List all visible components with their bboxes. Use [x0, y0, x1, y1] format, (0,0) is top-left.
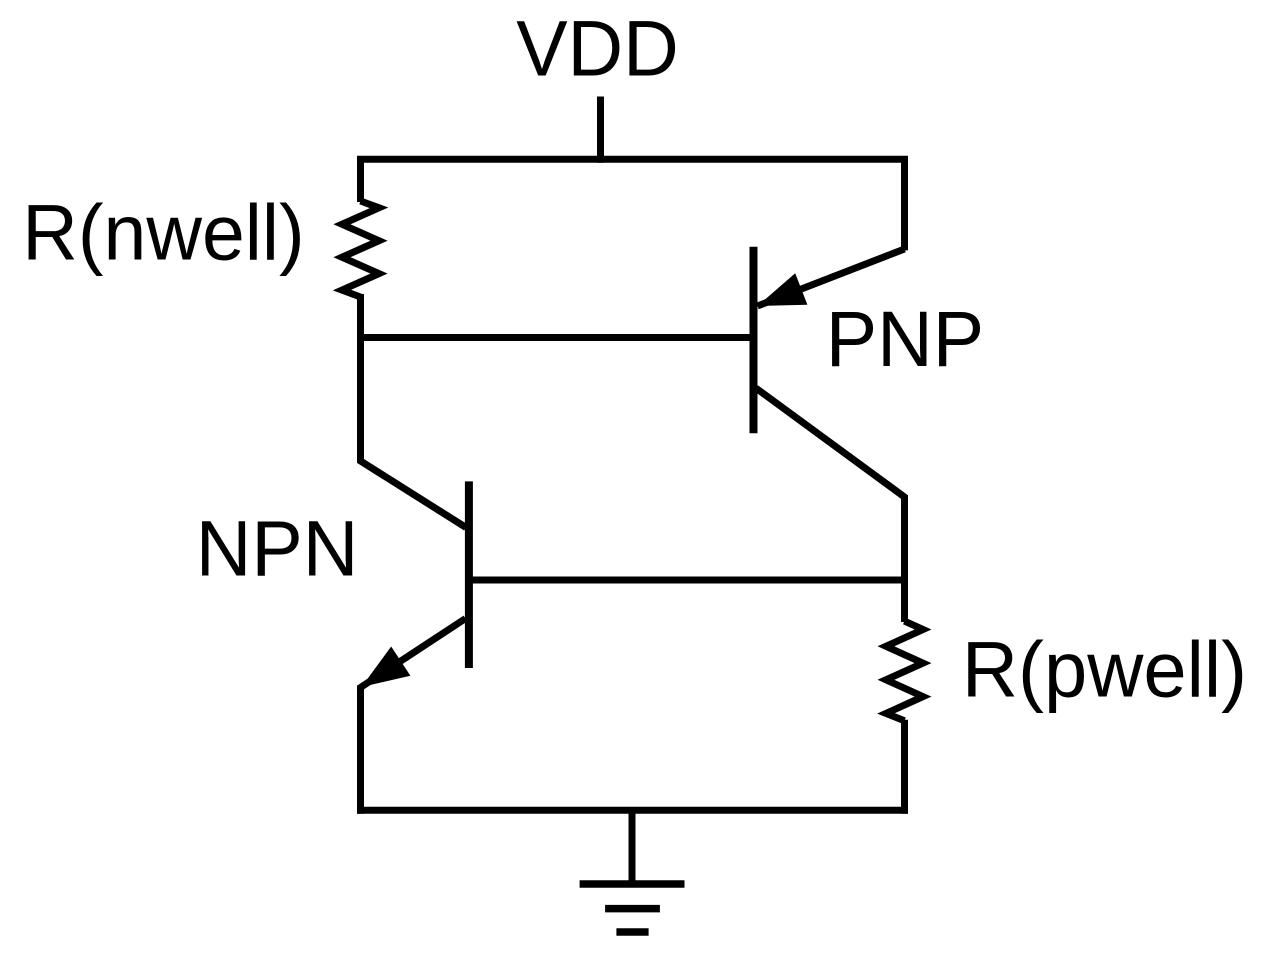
ground symbol bar 3 [616, 928, 648, 936]
resistor R(pwell) [886, 621, 923, 721]
svg-text:R(pwell): R(pwell) [962, 625, 1247, 714]
NPN emitter arrowhead [362, 647, 411, 688]
svg-text:PNP: PNP [826, 294, 984, 383]
svg-text:R(nwell): R(nwell) [22, 187, 304, 276]
wire left vertical through base node to elbow, NPN collector diagonal [361, 294, 467, 528]
wire NPN base [469, 577, 905, 584]
ground stub [629, 810, 636, 884]
wire bottom rail [357, 807, 908, 814]
PNP emitter arrowhead [758, 273, 808, 306]
ground symbol bar 1 [580, 880, 685, 888]
wire R(pwell) to bottom rail [901, 720, 908, 814]
PNP collector wire down to R(pwell) [756, 388, 905, 622]
PNP emitter wire [758, 249, 905, 306]
resistor R(nwell) [342, 201, 379, 297]
ground symbol bar 2 [605, 905, 660, 913]
svg-text:VDD: VDD [516, 4, 679, 93]
svg-text:NPN: NPN [196, 504, 359, 593]
NPN emitter wire and left down wire [361, 619, 466, 814]
transistor PNP bar [750, 247, 758, 434]
wire VDD stub [597, 97, 604, 163]
transistor NPN bar [465, 481, 473, 668]
wire PNP base [361, 334, 755, 341]
wire top rail with corners [361, 159, 905, 250]
